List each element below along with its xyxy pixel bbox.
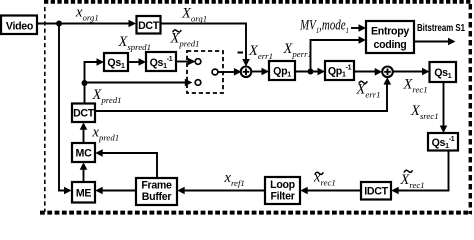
svg-text:IDCT: IDCT [364,186,388,198]
box Qp1 inverse [325,61,354,80]
wire switch to subtractor [218,68,241,76]
wire Frame Buffer top to MC [95,149,157,178]
svg-text:DCT: DCT [138,20,160,32]
svg-text:ME: ME [76,188,92,200]
svg-text:Buffer: Buffer [142,191,172,203]
wire junction to switch bottom contact [85,79,193,87]
wire junction up to entropy coding [311,36,367,71]
wire adder2 to Qs1 right [393,68,430,76]
box IDCT [361,182,391,200]
box Entropy coding [366,21,414,53]
wire Qs1 to Qs1inv [128,58,146,66]
svg-text:MC: MC [76,148,93,160]
box Frame Buffer [136,178,177,205]
node junction after Qp1 [308,69,314,75]
label X~pred1 [170,30,200,48]
svg-text:Frame: Frame [141,180,172,192]
wire Qs1inv to switch top contact [176,58,195,66]
wire DCT2 up to Qs1 [85,58,105,103]
switch bottom contact [195,80,201,86]
wire junction down to ME [59,24,72,195]
wire Video to DCT1 [37,20,136,28]
wire IDCT to Loop Filter [300,187,361,195]
switch top contact [195,59,201,65]
label X~err1 [356,81,381,99]
wire MV arrow to entropy coding [351,24,366,32]
box Qs1 inverse right [428,133,458,151]
node junction on prediction wire [82,80,88,86]
svg-text:Entropy: Entropy [371,26,409,38]
label minus sign [238,52,244,54]
subtractor adder1 [241,67,252,78]
box Qs1 inverse encoder [146,52,176,71]
dashed frame right [469,4,472,214]
label X~rec1 [400,170,425,190]
wire bitstream out arrow [414,38,456,46]
box DCT2 [72,104,95,123]
box DCT1 [137,16,161,34]
dashed frame bottom [40,211,472,215]
box ME [72,182,95,203]
svg-text:MV1,mode1: MV1,mode1 [299,18,349,36]
box Qs1 encoder [104,53,128,71]
box Qp1 [269,61,295,80]
wire ME to MC [80,162,88,182]
switch dashed box [187,51,223,93]
box MC [72,143,95,162]
box Qs1 right [430,62,457,82]
wire DCT1 to subtractor (X_org1) [160,24,250,67]
adder2 [382,67,393,78]
svg-text:Filter: Filter [270,190,294,202]
wire Frame Buffer to ME [95,187,136,195]
wire MC to DCT2 [80,122,88,143]
svg-text:coding: coding [374,39,407,51]
svg-text:Video: Video [6,21,34,33]
dashed frame left [44,7,46,212]
label x~rec1 [313,170,336,188]
wire Qs1 down to Qs1inv right [440,82,448,133]
svg-text:Loop: Loop [270,179,296,191]
node junction on video wire [56,21,62,27]
wire Loop Filter to Frame Buffer [177,187,265,195]
box Loop Filter [265,177,300,204]
svg-text:DCT: DCT [73,108,95,120]
switch common contact [212,69,218,75]
wire adder1 to Qp1 [251,68,269,76]
svg-text:Bitstream S1: Bitstream S1 [417,22,465,34]
dashed frame top [44,0,472,4]
wire Qp1inv to adder2 [354,68,382,76]
wire Qs1inv right down to IDCT [391,151,448,195]
wire X_pred1 from DCT2 to adder2 [94,77,391,111]
wire Qp1 to Qp1inv [295,68,325,76]
box Video [1,16,37,35]
